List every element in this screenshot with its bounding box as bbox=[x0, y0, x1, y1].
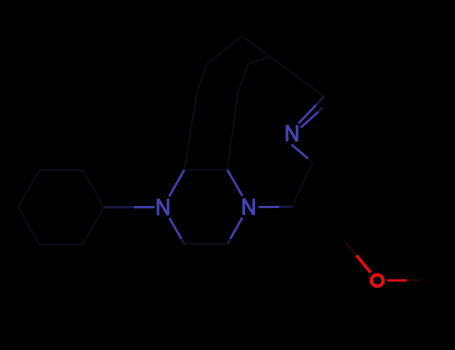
O-C6 dark part bbox=[345, 242, 357, 256]
ridge left bbox=[207, 36, 242, 64]
long diagonal bond down to C2 bbox=[242, 36, 324, 97]
double bond Nq=C2 second line bbox=[301, 112, 319, 128]
piperazine bottom edge bbox=[184, 243, 227, 245]
O-CH3 dark part bbox=[407, 279, 421, 281]
bond N2 to C8 blue half bbox=[259, 206, 280, 209]
C8a-C8 bond bbox=[292, 163, 313, 207]
ridge right bbox=[248, 56, 272, 64]
N quinoline to C8a dark part bbox=[308, 159, 313, 164]
C8 dark half of N2 bond bbox=[279, 206, 292, 208]
bond O to CH3 red half bbox=[388, 279, 407, 281]
bond Nq to C8a blue part bbox=[292, 145, 309, 159]
bond O to C6 red half bbox=[357, 256, 371, 273]
C2 dark ends of double bond bbox=[316, 97, 324, 112]
bond N1 to C2pip bbox=[169, 170, 184, 197]
piperazine top edge bbox=[184, 169, 227, 171]
bond phenyl-N1 dark half bbox=[104, 206, 136, 208]
apex right edge bbox=[238, 64, 248, 92]
apex left edge bbox=[197, 64, 207, 92]
bond N1 to C6pip bbox=[169, 218, 181, 239]
tall ring right edge bbox=[227, 92, 238, 170]
benzene ring (phenyl) bbox=[18, 170, 104, 244]
atom N quinoline bbox=[287, 125, 297, 142]
bond N2 to C5pip bbox=[230, 218, 242, 239]
atom N1 piperazine bbox=[158, 199, 168, 216]
atom O methoxy bbox=[371, 275, 383, 286]
tall ring left edge bbox=[184, 92, 197, 170]
double bond Nq=C2 main line bbox=[299, 105, 317, 124]
bond N1 left blue half bbox=[134, 206, 155, 208]
bond N2 to C3pip bbox=[227, 170, 242, 196]
bottom slant dark tips bbox=[181, 239, 230, 244]
atom N2 piperazine bbox=[244, 198, 254, 215]
